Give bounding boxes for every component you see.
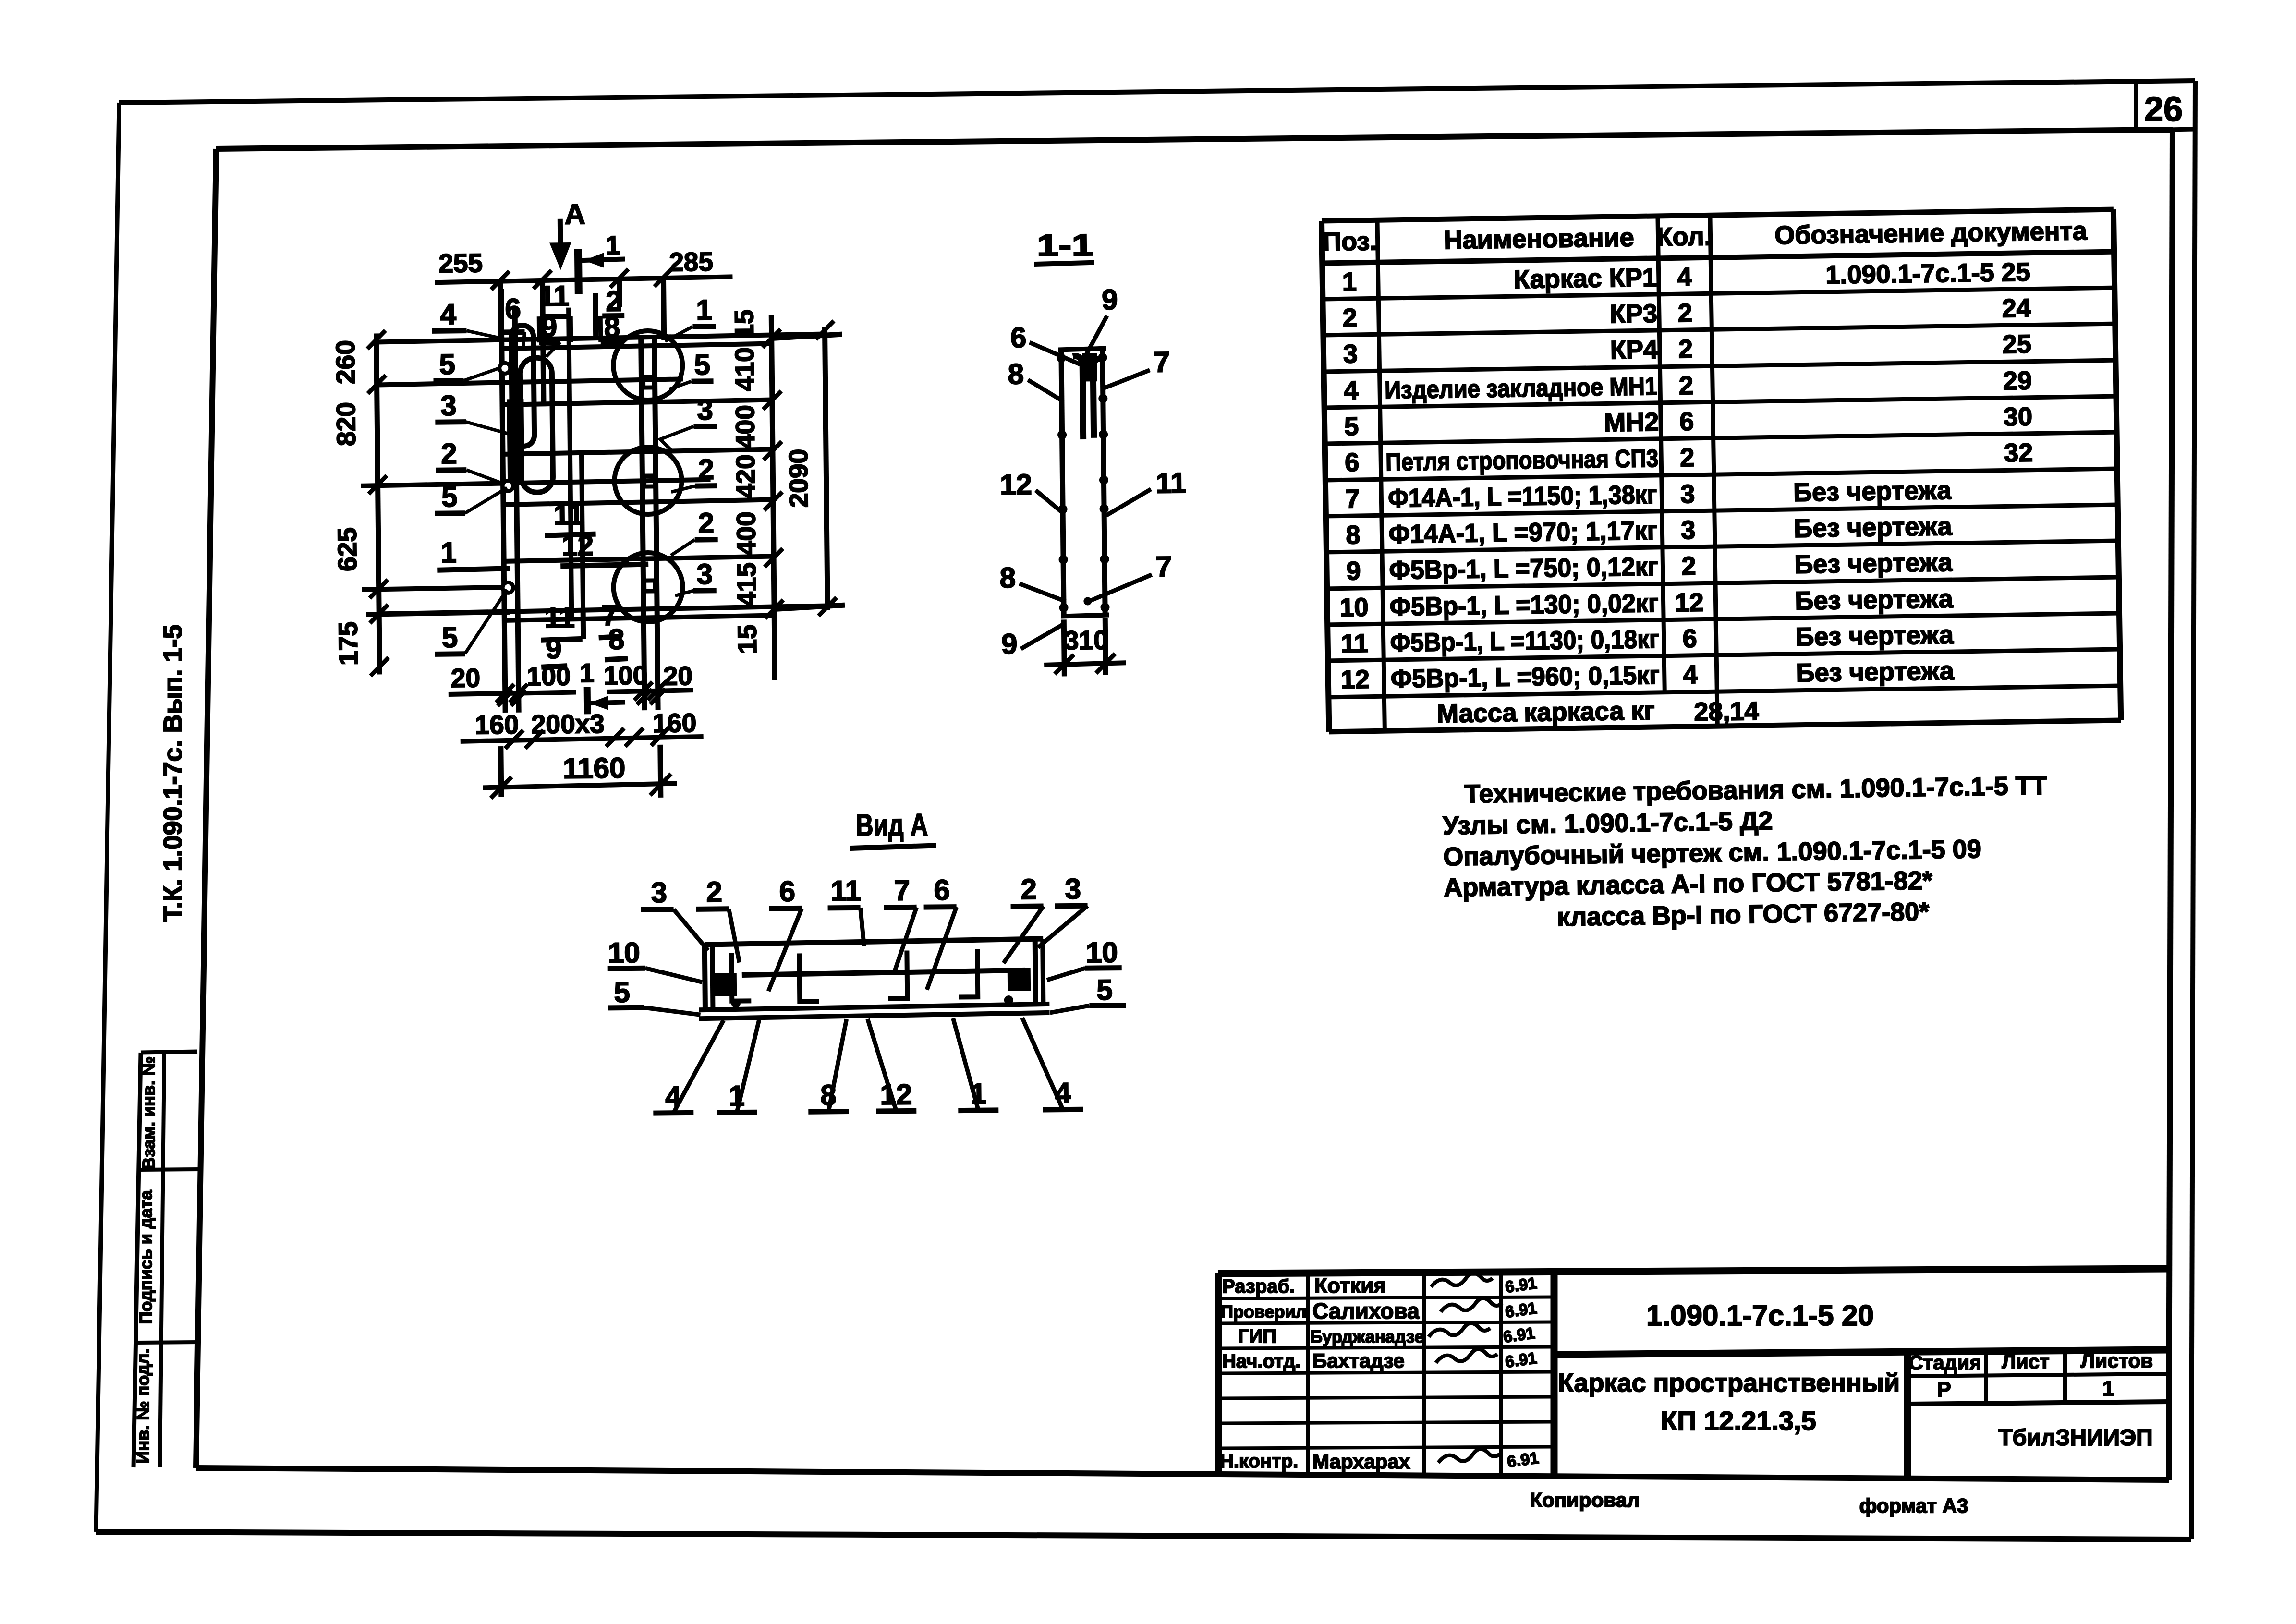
svg-text:Узлы см. 1.090.1-7с.1-5 Д2: Узлы см. 1.090.1-7с.1-5 Д2 bbox=[1443, 806, 1773, 840]
svg-text:Петля строповочная СП3: Петля строповочная СП3 bbox=[1385, 445, 1659, 476]
svg-text:11: 11 bbox=[830, 874, 861, 907]
svg-text:4: 4 bbox=[1344, 376, 1359, 405]
svg-text:9: 9 bbox=[541, 311, 557, 343]
svg-text:Каркас КР1: Каркас КР1 bbox=[1514, 263, 1657, 294]
svg-text:4: 4 bbox=[1677, 263, 1692, 291]
svg-text:Ф14А-1, L =970; 1,17кг: Ф14А-1, L =970; 1,17кг bbox=[1388, 516, 1658, 549]
svg-text:3: 3 bbox=[1343, 339, 1358, 368]
svg-text:11: 11 bbox=[553, 498, 584, 531]
svg-text:10: 10 bbox=[1339, 593, 1369, 622]
svg-text:9: 9 bbox=[1102, 283, 1118, 315]
svg-text:1-1: 1-1 bbox=[1036, 228, 1093, 263]
svg-text:420: 420 bbox=[730, 454, 761, 498]
svg-text:4: 4 bbox=[1683, 660, 1698, 689]
svg-text:6: 6 bbox=[1345, 448, 1360, 477]
svg-text:2: 2 bbox=[698, 453, 714, 485]
svg-text:6.91: 6.91 bbox=[1504, 1349, 1538, 1371]
svg-text:Ф5Вр-1, L =960; 0,15кг: Ф5Вр-1, L =960; 0,15кг bbox=[1390, 661, 1660, 693]
svg-text:Проверил: Проверил bbox=[1221, 1302, 1307, 1321]
svg-text:12: 12 bbox=[1340, 665, 1370, 694]
svg-text:7: 7 bbox=[1155, 550, 1172, 582]
svg-text:20: 20 bbox=[663, 661, 693, 691]
svg-text:10: 10 bbox=[1086, 936, 1118, 969]
svg-text:Листов: Листов bbox=[2081, 1349, 2153, 1372]
svg-text:6.91: 6.91 bbox=[1502, 1324, 1536, 1346]
svg-text:Без чертежа: Без чертежа bbox=[1794, 548, 1953, 579]
svg-text:8: 8 bbox=[608, 623, 625, 655]
svg-text:МН2: МН2 bbox=[1604, 408, 1659, 437]
svg-text:11: 11 bbox=[539, 280, 570, 313]
svg-text:20: 20 bbox=[451, 663, 481, 693]
svg-text:6: 6 bbox=[505, 293, 521, 325]
svg-text:285: 285 bbox=[669, 247, 713, 277]
svg-text:5: 5 bbox=[614, 976, 630, 1008]
svg-text:12: 12 bbox=[1675, 588, 1704, 618]
svg-text:Салихова: Салихова bbox=[1312, 1298, 1420, 1323]
svg-text:2: 2 bbox=[1342, 303, 1357, 332]
svg-text:Взам. инв. №: Взам. инв. № bbox=[139, 1056, 158, 1170]
svg-text:КР4: КР4 bbox=[1610, 335, 1658, 364]
svg-text:3: 3 bbox=[1681, 516, 1696, 545]
svg-text:2: 2 bbox=[1681, 552, 1696, 581]
svg-text:7: 7 bbox=[894, 874, 910, 906]
svg-text:6.91: 6.91 bbox=[1504, 1274, 1538, 1297]
svg-text:410: 410 bbox=[729, 347, 760, 391]
svg-text:Нач.отд.: Нач.отд. bbox=[1222, 1351, 1300, 1372]
svg-text:А: А bbox=[564, 198, 585, 230]
svg-text:5: 5 bbox=[1344, 412, 1359, 441]
svg-text:КР3: КР3 bbox=[1609, 299, 1657, 328]
svg-text:255: 255 bbox=[438, 248, 483, 278]
svg-text:7: 7 bbox=[1345, 485, 1360, 513]
svg-text:3: 3 bbox=[651, 876, 667, 909]
svg-text:32: 32 bbox=[2004, 438, 2033, 468]
svg-text:26: 26 bbox=[2144, 90, 2183, 129]
svg-text:Мархарах: Мархарах bbox=[1312, 1450, 1410, 1473]
svg-text:100: 100 bbox=[526, 661, 571, 691]
svg-text:1: 1 bbox=[580, 658, 595, 688]
svg-text:260: 260 bbox=[330, 340, 361, 384]
svg-text:Опалубочный чертеж см. 1.090.1: Опалубочный чертеж см. 1.090.1-7с.1-5 09 bbox=[1443, 835, 1981, 872]
svg-text:3: 3 bbox=[697, 394, 713, 426]
svg-text:1: 1 bbox=[2102, 1377, 2114, 1400]
svg-text:Вид А: Вид А bbox=[856, 807, 928, 842]
svg-text:Инв. № подл.: Инв. № подл. bbox=[133, 1349, 153, 1464]
svg-text:Р: Р bbox=[1937, 1378, 1951, 1401]
svg-text:Каркас пространственный: Каркас пространственный bbox=[1558, 1369, 1900, 1397]
svg-text:8: 8 bbox=[999, 561, 1016, 594]
svg-text:Без чертежа: Без чертежа bbox=[1795, 620, 1954, 652]
svg-text:9: 9 bbox=[1346, 557, 1361, 585]
svg-text:Без чертежа: Без чертежа bbox=[1795, 584, 1954, 616]
svg-text:2: 2 bbox=[706, 876, 722, 908]
svg-text:Бахтадзе: Бахтадзе bbox=[1312, 1349, 1405, 1372]
svg-text:6: 6 bbox=[934, 874, 950, 906]
svg-text:29: 29 bbox=[2003, 366, 2032, 396]
svg-text:8: 8 bbox=[1346, 521, 1361, 549]
svg-text:25: 25 bbox=[2002, 330, 2031, 359]
svg-text:6: 6 bbox=[1010, 321, 1027, 353]
svg-text:6.91: 6.91 bbox=[1504, 1299, 1538, 1321]
svg-text:5: 5 bbox=[439, 348, 455, 380]
svg-text:28,14: 28,14 bbox=[1694, 697, 1759, 727]
svg-text:6: 6 bbox=[1682, 624, 1697, 653]
svg-text:Без чертежа: Без чертежа bbox=[1796, 656, 1955, 688]
svg-text:Наименование: Наименование bbox=[1444, 223, 1634, 255]
svg-text:ТбилЗНИИЭП: ТбилЗНИИЭП bbox=[1998, 1425, 2152, 1451]
svg-text:400: 400 bbox=[730, 405, 760, 449]
svg-text:2: 2 bbox=[1678, 335, 1693, 364]
svg-text:Коткия: Коткия bbox=[1314, 1274, 1386, 1297]
svg-text:5: 5 bbox=[441, 481, 458, 513]
svg-text:100: 100 bbox=[603, 660, 647, 691]
svg-text:1160: 1160 bbox=[563, 752, 626, 785]
svg-text:160: 160 bbox=[652, 708, 696, 738]
svg-text:2: 2 bbox=[1680, 443, 1695, 472]
svg-text:формат А3: формат А3 bbox=[1859, 1494, 1968, 1517]
svg-text:400: 400 bbox=[731, 511, 761, 556]
svg-text:Т.К. 1.090.1-7с. Вып. 1-5: Т.К. 1.090.1-7с. Вып. 1-5 bbox=[158, 625, 187, 922]
svg-text:6: 6 bbox=[779, 875, 795, 908]
svg-text:1.090.1-7с.1-5 25: 1.090.1-7с.1-5 25 bbox=[1825, 258, 2030, 290]
svg-text:Стадия: Стадия bbox=[1908, 1351, 1981, 1374]
svg-text:1: 1 bbox=[1342, 267, 1357, 296]
svg-text:9: 9 bbox=[546, 632, 562, 665]
svg-text:3: 3 bbox=[440, 389, 457, 422]
svg-text:12: 12 bbox=[561, 529, 594, 562]
svg-text:11: 11 bbox=[544, 602, 575, 634]
svg-text:15: 15 bbox=[729, 309, 759, 339]
svg-text:Технические требования см. 1.: Технические требования см. 1.090.1-7с.1-… bbox=[1464, 771, 2047, 809]
svg-text:1: 1 bbox=[696, 294, 712, 326]
svg-text:2: 2 bbox=[441, 437, 457, 470]
svg-text:6: 6 bbox=[1679, 407, 1694, 436]
svg-text:Поз.: Поз. bbox=[1323, 227, 1377, 256]
svg-text:4: 4 bbox=[665, 1080, 682, 1113]
svg-text:30: 30 bbox=[2004, 402, 2033, 432]
svg-text:1: 1 bbox=[440, 536, 457, 569]
svg-text:6.91: 6.91 bbox=[1506, 1449, 1540, 1471]
svg-text:200х3: 200х3 bbox=[531, 709, 605, 739]
svg-text:3: 3 bbox=[1065, 873, 1081, 905]
svg-text:Без чертежа: Без чертежа bbox=[1793, 476, 1952, 507]
svg-text:11: 11 bbox=[1341, 629, 1369, 658]
svg-text:КП 12.21.3,5: КП 12.21.3,5 bbox=[1661, 1406, 1816, 1436]
svg-text:415: 415 bbox=[731, 562, 762, 606]
svg-text:3: 3 bbox=[696, 558, 713, 590]
svg-text:625: 625 bbox=[332, 527, 362, 571]
svg-text:Ф14А-1, L =1150; 1,38кг: Ф14А-1, L =1150; 1,38кг bbox=[1388, 480, 1657, 513]
svg-text:Без чертежа: Без чертежа bbox=[1794, 512, 1953, 543]
svg-text:1: 1 bbox=[605, 230, 620, 260]
svg-text:9: 9 bbox=[1001, 628, 1018, 660]
svg-text:3: 3 bbox=[1680, 480, 1695, 509]
svg-text:2: 2 bbox=[1679, 371, 1694, 400]
svg-text:2: 2 bbox=[698, 507, 714, 539]
svg-text:8: 8 bbox=[1008, 358, 1024, 390]
svg-text:24: 24 bbox=[2002, 294, 2031, 323]
svg-text:8: 8 bbox=[604, 311, 620, 343]
svg-text:10: 10 bbox=[608, 936, 640, 969]
svg-text:7: 7 bbox=[1154, 346, 1170, 378]
svg-text:Н.контр.: Н.контр. bbox=[1220, 1451, 1298, 1472]
svg-text:Лист: Лист bbox=[2002, 1350, 2049, 1373]
svg-text:2090: 2090 bbox=[783, 449, 814, 508]
svg-text:Ф5Вр-1, L =130; 0,02кг: Ф5Вр-1, L =130; 0,02кг bbox=[1389, 589, 1659, 621]
svg-text:Подпись и дата: Подпись и дата bbox=[136, 1190, 156, 1324]
svg-text:11: 11 bbox=[1156, 467, 1187, 499]
svg-text:175: 175 bbox=[333, 621, 363, 666]
svg-text:5: 5 bbox=[694, 349, 710, 381]
svg-text:160: 160 bbox=[474, 710, 519, 740]
svg-text:Арматура класса А-I по ГОСТ 57: Арматура класса А-I по ГОСТ 5781-82* bbox=[1444, 866, 1933, 902]
svg-text:Ф5Вр-1, L =750; 0,12кг: Ф5Вр-1, L =750; 0,12кг bbox=[1389, 552, 1658, 585]
svg-text:Ф5Вр-1, L =1130; 0,18кг: Ф5Вр-1, L =1130; 0,18кг bbox=[1390, 625, 1659, 657]
svg-text:ГИП: ГИП bbox=[1238, 1326, 1276, 1347]
svg-text:5: 5 bbox=[1096, 974, 1113, 1006]
svg-text:Разраб.: Разраб. bbox=[1222, 1276, 1295, 1297]
svg-text:Бурджанадзе: Бурджанадзе bbox=[1310, 1327, 1424, 1346]
svg-text:Изделие закладное МН1: Изделие закладное МН1 bbox=[1385, 373, 1658, 404]
svg-text:Масса каркаса кг: Масса каркаса кг bbox=[1437, 696, 1655, 728]
svg-text:15: 15 bbox=[732, 624, 762, 654]
svg-text:Обозначение документа: Обозначение документа bbox=[1774, 217, 2088, 250]
svg-text:12: 12 bbox=[1000, 468, 1032, 501]
svg-text:2: 2 bbox=[1677, 299, 1692, 327]
svg-text:Кол.: Кол. bbox=[1656, 222, 1712, 252]
svg-text:Копировал: Копировал bbox=[1530, 1489, 1640, 1511]
svg-text:5: 5 bbox=[442, 621, 458, 654]
svg-text:310: 310 bbox=[1064, 625, 1108, 655]
svg-text:класса Вр-I по ГОСТ 6727-80*: класса Вр-I по ГОСТ 6727-80* bbox=[1557, 897, 1930, 932]
svg-text:820: 820 bbox=[331, 402, 361, 446]
svg-text:4: 4 bbox=[440, 298, 457, 330]
svg-text:1.090.1-7с.1-5 20: 1.090.1-7с.1-5 20 bbox=[1646, 1299, 1874, 1332]
svg-text:2: 2 bbox=[1020, 873, 1037, 905]
